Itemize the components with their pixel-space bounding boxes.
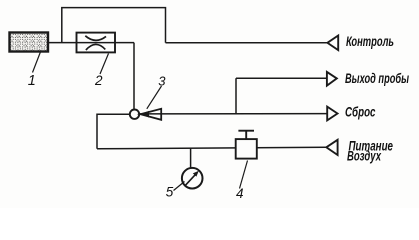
wire: vyhod proby vertical xyxy=(235,78,237,113)
port triangle: Kontrol (points left) xyxy=(327,36,338,51)
svg-text:2: 2 xyxy=(94,73,103,88)
port triangle: Sbros (points right) xyxy=(327,107,337,121)
svg-text:3: 3 xyxy=(158,74,166,89)
leader line 2 xyxy=(100,54,109,75)
component 4: regulator box xyxy=(236,139,257,159)
wire: Kontrol line xyxy=(166,42,329,44)
wire: comp1 to comp2 through restrictor xyxy=(49,42,135,44)
regulator stem xyxy=(245,131,247,139)
restrictor bottom arc xyxy=(86,44,105,50)
leader line 1 xyxy=(33,51,42,73)
port triangle: Pitanie vozduh (points left) xyxy=(326,140,337,155)
regulator T-bar xyxy=(238,130,254,132)
svg-text:1: 1 xyxy=(28,73,36,89)
wire: top loop horizontal xyxy=(62,8,166,43)
wire: down to node 3 xyxy=(133,43,135,110)
nozzle 3: hollow triangle xyxy=(140,109,161,120)
gauge needle xyxy=(185,173,197,186)
component 5: pressure gauge circle xyxy=(182,168,203,189)
svg-text:Выход пробы: Выход пробы xyxy=(345,71,409,86)
component 2: restrictor box xyxy=(77,33,116,53)
svg-text:Контроль: Контроль xyxy=(346,34,394,49)
node 3: circle junction xyxy=(130,110,139,119)
svg-text:Воздух: Воздух xyxy=(347,148,381,163)
component 1: filter (stippled box) xyxy=(10,33,49,52)
leader line 5 xyxy=(174,182,185,191)
gauge needle arrowhead xyxy=(193,171,199,177)
nozzle 3: solid tip xyxy=(140,111,149,118)
port triangle: Vyhod proby (points right) xyxy=(327,72,337,86)
svg-text:4: 4 xyxy=(236,186,244,201)
wire: sbros line from nozzle to right xyxy=(140,113,328,115)
restrictor top arc xyxy=(85,36,106,41)
svg-text:Сброс: Сброс xyxy=(345,104,376,119)
wire: node left then down xyxy=(97,114,130,149)
leader line 4 xyxy=(240,161,248,189)
svg-text:5: 5 xyxy=(166,185,174,200)
leader line 3 xyxy=(147,86,162,109)
wire: bottom supply line xyxy=(97,147,327,149)
wire: vyhod proby horizontal xyxy=(236,77,327,79)
wire: gauge stub xyxy=(190,149,192,169)
